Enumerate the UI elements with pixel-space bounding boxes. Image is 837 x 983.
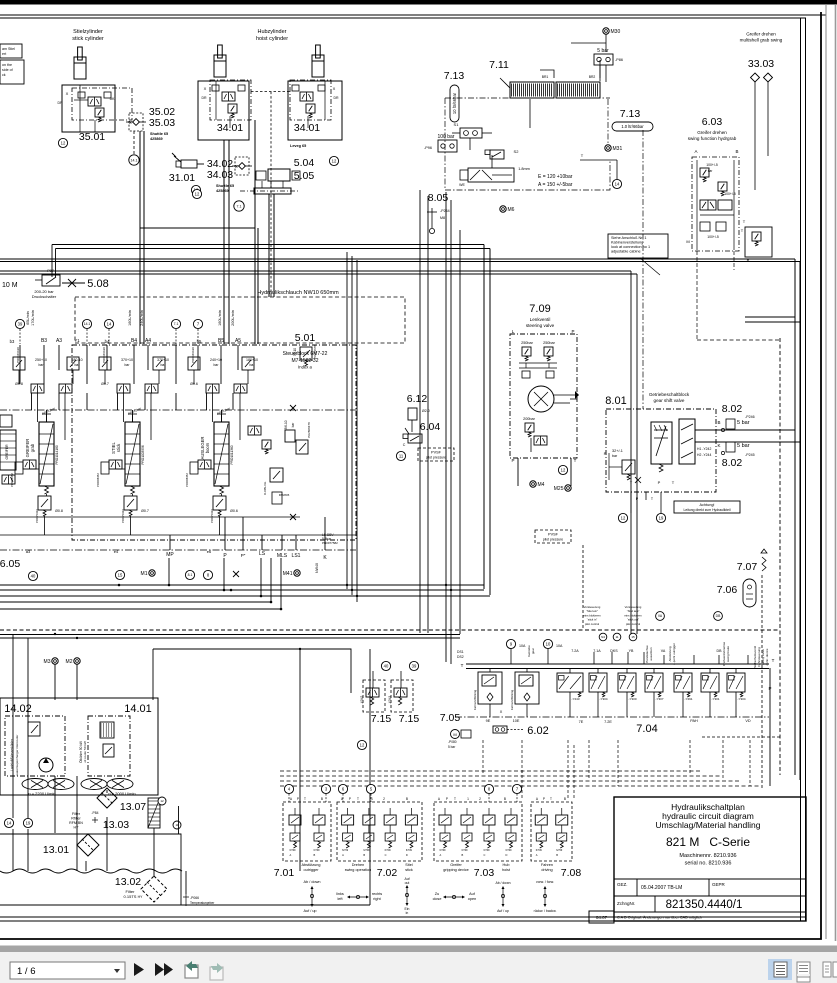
svg-text:WE: WE <box>459 183 465 187</box>
svg-text:DB: DB <box>716 614 721 618</box>
wire right verticals <box>794 259 796 775</box>
svg-text:-P97: -P97 <box>46 269 54 273</box>
bundle risers <box>168 558 170 585</box>
svg-text:X: X <box>66 91 69 96</box>
node N4 circle <box>599 633 607 641</box>
svg-text:7.06: 7.06 <box>717 584 738 596</box>
svg-text:oil cooler 50 kW: oil cooler 50 kW <box>83 741 87 763</box>
svg-text:100+/-5: 100+/-5 <box>707 235 719 239</box>
svg-text:N4: N4 <box>601 635 605 639</box>
svg-text:contr. device: contr. device <box>765 648 769 665</box>
svg-text:pilot pressure: pilot pressure <box>426 456 446 460</box>
svg-text:13.07: 13.07 <box>120 801 146 813</box>
mid small comps 501 <box>248 426 261 435</box>
hose dashed box <box>75 297 405 343</box>
svg-text:12: 12 <box>621 516 626 521</box>
svg-text:B5: B5 <box>218 338 224 344</box>
svg-text:7.15: 7.15 <box>399 713 420 725</box>
wire corner top <box>140 120 255 228</box>
svg-text:1.0 ltr/66bar: 1.0 ltr/66bar <box>621 124 644 129</box>
svg-text:Shuttle 65: Shuttle 65 <box>150 132 168 136</box>
svg-text:35.03: 35.03 <box>149 117 175 129</box>
704 section 6 <box>645 673 663 692</box>
svg-text:14.1: 14.1 <box>84 322 91 326</box>
valve 33.03 left <box>751 73 760 82</box>
svg-text:-P84: -P84 <box>91 811 98 815</box>
svg-text:8.05: 8.05 <box>428 192 449 204</box>
svg-text:160L/min: 160L/min <box>218 310 222 326</box>
svg-text:11: 11 <box>399 454 404 459</box>
svg-text:M41: M41 <box>283 571 293 577</box>
svg-text:DR: DR <box>333 96 339 100</box>
ladder 13.07 <box>148 798 160 828</box>
svg-text:adjustable cabine: adjustable cabine <box>611 250 641 254</box>
svg-text:4-point outrigger: 4-point outrigger <box>672 643 676 665</box>
svg-text:12: 12 <box>195 192 200 197</box>
svg-text:PRO1003556: PRO1003556 <box>141 445 145 465</box>
solid bus pair <box>0 634 460 636</box>
node 7.1 circle b <box>171 319 180 328</box>
svg-text:grab: grab <box>30 443 35 452</box>
svg-text:100 bar: 100 bar <box>438 134 455 140</box>
svg-text:Hydraulikschlauch NW10 650mm: Hydraulikschlauch NW10 650mm <box>257 290 339 296</box>
shuttle valve 34.02/34.03 <box>235 157 249 175</box>
svg-text:B: B <box>717 420 720 425</box>
svg-text:5.08: 5.08 <box>87 278 108 290</box>
check sym <box>62 282 85 284</box>
svg-text:425869: 425869 <box>216 189 229 193</box>
svg-text:M3: M3 <box>44 659 51 665</box>
svg-text:PRO70416: PRO70416 <box>210 509 214 523</box>
svg-text:DB: DB <box>717 649 723 653</box>
svg-text:Greifer drehen: Greifer drehen <box>697 130 727 135</box>
svg-text:S1: S1 <box>454 122 460 127</box>
svg-text:H2 -Y244: H2 -Y244 <box>697 453 711 457</box>
node 9 circle <box>506 639 515 648</box>
svg-text:250+10: 250+10 <box>35 358 47 362</box>
svg-text:T: T <box>304 797 306 801</box>
top black strip <box>0 0 837 5</box>
wire shuttle to 14.1 <box>133 131 135 155</box>
svg-text:05.04.2007 TB-LM: 05.04.2007 TB-LM <box>641 885 682 891</box>
svg-text:5 bar: 5 bar <box>737 420 750 426</box>
dbv group mid <box>270 468 283 482</box>
node 15 circle b <box>629 633 637 641</box>
wire verticals x347 <box>346 252 348 589</box>
page right edge <box>825 4 827 939</box>
dashed region border mid <box>521 770 523 799</box>
gear valve main <box>651 422 672 464</box>
svg-text:7.02: 7.02 <box>377 867 398 879</box>
svg-text:PVSF: PVSF <box>548 533 559 537</box>
svg-text:ck: ck <box>2 73 6 77</box>
svg-text:PRO70416: PRO70416 <box>35 509 39 523</box>
filter diamond top <box>97 788 117 808</box>
svg-text:P: P <box>571 329 574 334</box>
fan 14.01 <box>81 779 107 790</box>
svg-text:180-10: 180-10 <box>71 358 82 362</box>
svg-text:T: T <box>454 797 456 801</box>
wire risers mid <box>483 245 485 590</box>
svg-text:DS2: DS2 <box>457 655 464 659</box>
junction dots 2 <box>346 584 348 586</box>
svg-text:8.1: 8.1 <box>188 573 193 577</box>
svg-text:bar: bar <box>214 363 220 367</box>
svg-text:swing function hydrgrab: swing function hydrgrab <box>688 136 737 141</box>
node 8 circle <box>203 570 212 579</box>
svg-text:Siehe Anschluß Nr. 1: Siehe Anschluß Nr. 1 <box>611 236 646 240</box>
svg-text:5.01: 5.01 <box>295 332 316 344</box>
svg-text:04.07: 04.07 <box>596 915 608 920</box>
comp 6.12 <box>408 408 417 420</box>
svg-text:6/709: 6/709 <box>314 849 321 852</box>
svg-text:swing operation: swing operation <box>345 868 372 872</box>
svg-text:10 ltr/66bar: 10 ltr/66bar <box>452 92 457 114</box>
mid small comps 501 right <box>300 347 312 360</box>
svg-text:B4: B4 <box>131 338 137 344</box>
svg-text:B: B <box>406 797 408 801</box>
node 19 circle c <box>23 818 32 827</box>
dash-dot under 704 <box>455 716 769 718</box>
node 12 circle b <box>191 185 200 194</box>
wire horizontals y248 <box>52 244 484 246</box>
rail 704 <box>466 663 769 665</box>
valve section STIEL <box>99 357 111 370</box>
dashed vert x780 <box>779 338 781 775</box>
svg-text:BR2: BR2 <box>589 75 596 79</box>
svg-text:B3: B3 <box>41 338 47 344</box>
gear valve prop <box>679 419 695 464</box>
tank right vert <box>180 871 182 905</box>
valve block 34.01 right internals <box>300 92 313 101</box>
svg-text:T: T <box>357 797 359 801</box>
svg-text:6.03: 6.03 <box>702 116 723 128</box>
wire M31 dashdot <box>607 99 609 143</box>
joystick 7.03 <box>434 802 522 861</box>
node 40 circle <box>28 571 37 580</box>
svg-text:170L/min: 170L/min <box>31 310 35 326</box>
svg-text:12: 12 <box>61 141 66 146</box>
siehe box <box>608 234 668 258</box>
svg-text:B: B <box>462 853 464 857</box>
svg-text:bar: bar <box>612 454 618 458</box>
svg-text:M30: M30 <box>611 29 621 35</box>
svg-text:B: B <box>504 797 506 801</box>
svg-text:-Y341: -Y341 <box>388 696 392 705</box>
svg-text:6/709: 6/709 <box>506 849 513 852</box>
svg-text:A: A <box>440 853 442 857</box>
svg-text:10A: 10A <box>556 644 563 648</box>
svg-text:P: P <box>543 797 545 801</box>
valve block 34.01 right outline <box>288 81 342 140</box>
svg-text:LS1: LS1 <box>292 553 301 559</box>
fan 14.02 <box>22 779 48 790</box>
svg-text:MP: MP <box>166 552 174 558</box>
svg-text:7.01: 7.01 <box>274 867 295 879</box>
svg-text:19: 19 <box>26 821 31 826</box>
svg-text:10 M: 10 M <box>2 282 18 289</box>
title grid lines <box>614 878 806 880</box>
svg-text:7.2E: 7.2E <box>604 720 612 724</box>
svg-text:NW40: NW40 <box>315 563 319 573</box>
wire pair manifold down <box>268 194 270 297</box>
svg-text:Leitung direkt zum Hydraulikte: Leitung direkt zum Hydraulikteil <box>683 508 730 512</box>
svg-text:200L/min: 200L/min <box>231 310 235 326</box>
svg-text:BR1: BR1 <box>542 75 549 79</box>
wire port stubs <box>19 329 21 344</box>
svg-text:B: B <box>556 853 558 857</box>
svg-text:821350.4440/1: 821350.4440/1 <box>666 899 743 911</box>
svg-text:K: K <box>717 443 720 448</box>
svg-text:370+10: 370+10 <box>157 358 169 362</box>
node M30 <box>603 28 609 34</box>
svg-text:pilot control: pilot control <box>585 622 600 626</box>
svg-text:M8: M8 <box>440 216 445 220</box>
svg-text:33.03: 33.03 <box>748 58 774 70</box>
svg-text:B: B <box>321 797 323 801</box>
704 stubs above rail <box>510 649 512 664</box>
single page icon <box>797 962 810 977</box>
svg-text:Ø0.8: Ø0.8 <box>55 509 63 513</box>
node 12 circle st <box>558 465 567 474</box>
svg-text:7.09: 7.09 <box>529 303 550 315</box>
svg-text:6.12: 6.12 <box>407 393 428 405</box>
valve block 6.03 <box>692 157 739 251</box>
cooler outer box <box>0 698 158 795</box>
svg-text:GEPR: GEPR <box>712 882 726 887</box>
node 12 circle <box>58 138 67 147</box>
svg-text:DS1: DS1 <box>457 650 464 654</box>
node 14.1 circle b <box>82 319 91 328</box>
svg-text:P″: P″ <box>241 553 246 558</box>
svg-text:32+/-1: 32+/-1 <box>612 449 623 453</box>
pressure switch 5.08 <box>42 275 60 286</box>
svg-text:10A: 10A <box>519 644 526 648</box>
svg-text:DKS: DKS <box>610 649 618 653</box>
dash corner x780 <box>700 736 780 738</box>
node 12 circle g <box>618 513 627 522</box>
svg-text:3/6-10: 3/6-10 <box>284 420 288 429</box>
svg-text:S2: S2 <box>514 149 520 154</box>
svg-text:250bar: 250bar <box>521 341 534 345</box>
bundle h3 <box>0 595 490 597</box>
svg-text:hoist cylinder: hoist cylinder <box>256 36 288 42</box>
cylinder stick <box>78 47 83 60</box>
svg-text:Ab / down: Ab / down <box>304 880 321 884</box>
wires 6.03 verticals <box>696 251 698 340</box>
501 inner drops <box>31 393 33 410</box>
svg-text:rechts: rechts <box>372 892 382 896</box>
svg-text:Y1: Y1 <box>74 338 80 343</box>
svg-text:Fahren: Fahren <box>541 863 553 867</box>
valve block 35.01 outline <box>62 85 115 132</box>
svg-text:-Y304: -Y304 <box>600 697 608 701</box>
valve block 35.01 internals <box>88 97 101 106</box>
svg-text:7.1: 7.1 <box>237 204 242 208</box>
svg-text:5 bar: 5 bar <box>737 443 750 449</box>
svg-text:12: 12 <box>332 159 337 164</box>
svg-text:1 / 6: 1 / 6 <box>17 966 36 977</box>
svg-text:7.13: 7.13 <box>620 108 641 120</box>
svg-text:Getriebeschaltblock: Getriebeschaltblock <box>649 392 690 397</box>
svg-text:gripping device: gripping device <box>443 868 469 872</box>
svg-text:steering valve: steering valve <box>526 323 555 328</box>
svg-text:P: P <box>446 797 448 801</box>
bundle h1 <box>0 584 484 586</box>
svg-text:240+10: 240+10 <box>210 358 222 362</box>
svg-text:6/709: 6/709 <box>290 849 297 852</box>
dashed vert x583 <box>582 545 584 630</box>
svg-text:M4: M4 <box>538 482 545 488</box>
bundle h5 <box>0 608 281 610</box>
svg-text:Stiel: Stiel <box>405 863 413 867</box>
box right of 6.03 <box>745 227 772 257</box>
wire M3M2 stems <box>54 664 56 700</box>
svg-text:40: 40 <box>384 664 389 669</box>
svg-text:2: 2 <box>383 797 385 801</box>
last page button <box>155 963 164 976</box>
svg-text:Fahren/Wirking: Fahren/Wirking <box>510 690 514 711</box>
svg-text:A: A <box>694 149 697 154</box>
svg-text:7.07: 7.07 <box>737 561 758 573</box>
svg-text:H1 -Y242: H1 -Y242 <box>697 447 711 451</box>
node 10 circle <box>543 639 552 648</box>
svg-text:serial no. 8210.936: serial no. 8210.936 <box>685 861 732 867</box>
svg-text:-Y300: -Y300 <box>629 697 637 701</box>
node 14.1 circle <box>129 155 139 165</box>
svg-text:X: X <box>500 710 503 714</box>
node M41 <box>294 570 300 576</box>
node 8.1 circle <box>185 570 194 579</box>
left cut section <box>0 430 16 470</box>
svg-text:D: D <box>506 853 508 857</box>
svg-text:7.08: 7.08 <box>561 867 582 879</box>
svg-text:7.04: 7.04 <box>636 723 657 735</box>
704 section 3 <box>557 673 583 692</box>
704 section 2 <box>515 672 539 704</box>
svg-text:gear: gear <box>531 648 535 654</box>
node M25 <box>565 485 571 491</box>
svg-text:65L/min: 65L/min <box>26 311 30 325</box>
svg-text:7.11: 7.11 <box>489 59 509 71</box>
svg-text:12: 12 <box>160 799 164 803</box>
svg-text:6.02: 6.02 <box>527 725 548 737</box>
svg-text:7.2A: 7.2A <box>571 649 579 653</box>
wire pair from 35.01 down <box>139 131 141 344</box>
svg-text:rückw. / backw.: rückw. / backw. <box>534 909 557 913</box>
node 39 circle b <box>409 661 418 670</box>
svg-text:stick: stick <box>116 443 121 452</box>
bundle h4 <box>0 601 271 603</box>
svg-text:Kabinenverstellung: Kabinenverstellung <box>611 241 643 245</box>
svg-text:PR0046420: PR0046420 <box>191 347 195 363</box>
left pair to 5.08 <box>51 245 53 278</box>
wire gear drops <box>630 492 632 513</box>
svg-text:7E: 7E <box>579 720 584 724</box>
svg-text:right: right <box>373 897 381 901</box>
capsule 7.06 <box>743 579 756 607</box>
svg-text:bar: bar <box>250 363 256 367</box>
svg-text:DR: DR <box>57 101 63 105</box>
svg-text:200bar: 200bar <box>523 417 536 421</box>
svg-text:Auf / up: Auf / up <box>497 909 509 913</box>
svg-text:Drehen: Drehen <box>352 863 364 867</box>
svg-text:bar: bar <box>75 363 81 367</box>
rotate icon 2 <box>210 967 223 980</box>
svg-text:Achtung!: Achtung! <box>700 503 715 507</box>
cooler block 14.02 <box>5 716 65 776</box>
node DB circle <box>714 612 723 621</box>
svg-text:B: B <box>735 149 738 154</box>
svg-text:Umschlag/Material handling: Umschlag/Material handling <box>656 820 761 830</box>
comp 6.04 <box>408 434 422 443</box>
svg-text:Stielzylinder: Stielzylinder <box>73 29 103 35</box>
valve section GREIFER <box>13 357 25 370</box>
715 left <box>363 680 385 712</box>
dash-dot bottom 501 <box>0 549 356 551</box>
svg-text:19: 19 <box>659 516 664 521</box>
svg-text:T: T <box>550 797 552 801</box>
svg-text:39: 39 <box>18 322 23 327</box>
cooler box line <box>153 649 351 693</box>
svg-text:6/709: 6/709 <box>536 849 543 852</box>
tank box <box>0 834 181 871</box>
svg-text:425869: 425869 <box>150 137 163 141</box>
filter 13.02 <box>141 876 167 902</box>
svg-text:X: X <box>204 86 207 91</box>
svg-text:-Y301: -Y301 <box>712 697 720 701</box>
svg-text:14: 14 <box>615 182 620 187</box>
svg-text:B: B <box>564 797 566 801</box>
dashed vert x762 <box>761 575 763 790</box>
svg-text:250bar: 250bar <box>543 341 556 345</box>
wire 711 to S1 <box>529 99 531 128</box>
cut info box top left <box>0 44 22 58</box>
page top edge line <box>0 14 826 16</box>
valve block 1.8mm <box>468 168 514 182</box>
svg-text:14.1: 14.1 <box>131 158 138 162</box>
svg-text:T: T <box>574 458 577 463</box>
wire pair from 34.01 down <box>223 140 225 344</box>
node M1 <box>149 570 155 576</box>
svg-text:40: 40 <box>31 574 36 579</box>
gear shift block outline <box>606 409 716 492</box>
svg-text:hoist: hoist <box>502 868 511 872</box>
svg-text:39: 39 <box>412 664 417 669</box>
svg-text:C: C <box>403 443 406 447</box>
svg-text:b5: b5 <box>197 339 202 344</box>
svg-text:7.13: 7.13 <box>444 70 465 82</box>
solid vert x770 <box>769 668 771 786</box>
wire M30 to 711 <box>605 65 607 82</box>
svg-text:14: 14 <box>7 821 12 826</box>
svg-text:ausatmen: ausatmen <box>649 647 653 661</box>
svg-text:-P246: -P246 <box>745 415 755 419</box>
svg-text:links: links <box>336 892 344 896</box>
svg-text:A5: A5 <box>235 338 241 344</box>
svg-text:Zu: Zu <box>435 892 439 896</box>
svg-text:-P244: -P244 <box>440 209 450 213</box>
704 section 8 <box>701 673 719 692</box>
svg-text:6/709: 6/709 <box>342 849 349 852</box>
svg-text:13.02: 13.02 <box>115 876 141 888</box>
svg-text:multishell grab swing: multishell grab swing <box>740 38 783 43</box>
svg-text:7.1: 7.1 <box>174 322 179 326</box>
svg-text:pilot pressure: pilot pressure <box>543 538 563 542</box>
svg-text:M6: M6 <box>508 207 515 213</box>
svg-text:P: P <box>297 797 299 801</box>
wires gear to right <box>695 429 795 431</box>
